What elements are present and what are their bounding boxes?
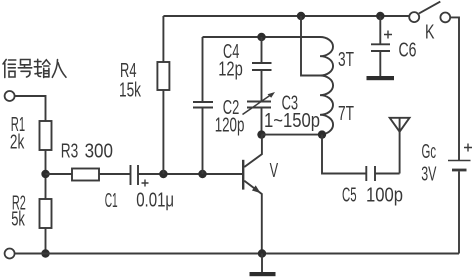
svg-text:Gc: Gc <box>422 140 437 163</box>
wire C1 to base node <box>138 173 242 175</box>
svg-text:12p: 12p <box>218 58 243 81</box>
C6 plus sign <box>384 31 392 39</box>
node C2 bottom <box>198 170 206 178</box>
wire battery to ground rail <box>458 171 460 253</box>
wire collector node to coil bottom <box>262 134 323 136</box>
wire C4 top <box>261 37 263 63</box>
switch K pole <box>409 12 419 22</box>
svg-text:C6: C6 <box>399 39 417 62</box>
node collector <box>257 130 265 138</box>
inductor L1 7T section <box>320 76 333 135</box>
wire C4 to C3 <box>261 70 263 102</box>
wire R4 bottom <box>162 90 164 174</box>
svg-text:R3: R3 <box>61 140 79 163</box>
battery plus sign <box>464 144 472 152</box>
svg-text:0.01μ: 0.01μ <box>136 189 174 212</box>
switch K lever <box>419 2 440 14</box>
svg-text:V: V <box>270 159 279 182</box>
svg-text:3V: 3V <box>421 162 436 185</box>
svg-text:300: 300 <box>85 140 113 163</box>
resistor R2 <box>40 199 52 228</box>
wire node A to R3 <box>46 173 73 175</box>
svg-text:120p: 120p <box>215 113 245 136</box>
capacitor C5 <box>366 166 375 181</box>
node C4 top <box>257 33 265 41</box>
node supply tap <box>297 12 305 20</box>
capacitor C4 <box>252 63 272 70</box>
capacitor C3 variable <box>247 102 271 108</box>
wire coil bottom to C5 <box>322 135 366 174</box>
switch K throw <box>440 13 450 23</box>
C1 plus sign <box>142 180 149 187</box>
svg-text:C1: C1 <box>105 189 118 212</box>
capacitor C6 <box>371 44 390 51</box>
wire switch to battery <box>450 17 459 160</box>
C3 arrow <box>243 94 273 115</box>
wire C3 bottom <box>261 108 263 135</box>
svg-text:C5: C5 <box>342 183 357 206</box>
wire R4 top <box>162 16 164 62</box>
node R4 bottom <box>159 170 167 178</box>
node coil bottom <box>318 130 326 138</box>
input terminal J1 <box>5 91 15 101</box>
ground symbol at C6 <box>367 76 395 80</box>
node C6 top <box>376 12 384 20</box>
transistor V base bar <box>242 160 244 190</box>
svg-text:K: K <box>425 21 435 44</box>
wire tank top <box>203 36 321 38</box>
battery Gc negative plate <box>452 169 467 172</box>
wire C6 bottom <box>379 51 381 76</box>
svg-text:2k: 2k <box>10 130 25 153</box>
label 信号输入 <box>3 59 66 77</box>
battery Gc positive plate <box>448 160 471 162</box>
resistor R4 <box>157 62 169 90</box>
resistor R1 <box>40 121 52 150</box>
resistor R3 <box>72 169 99 181</box>
ground symbol main <box>261 254 263 273</box>
top supply rail <box>163 15 409 17</box>
antenna <box>390 118 410 132</box>
input terminal J2 <box>5 249 15 259</box>
svg-text:3T: 3T <box>338 48 354 71</box>
node divider junction A <box>41 170 49 178</box>
node ground rail left <box>41 249 49 257</box>
wire tap to coil <box>301 16 320 76</box>
wire C2 bottom <box>202 108 204 175</box>
node emitter ground <box>258 249 266 257</box>
wire C6 top <box>379 16 381 44</box>
inductor L1 3T section <box>320 37 333 76</box>
transistor V emitter lead <box>244 181 261 254</box>
ground rail wire <box>15 253 459 255</box>
svg-text:1~150p: 1~150p <box>264 109 320 132</box>
wire C2 top <box>202 37 204 102</box>
svg-text:15k: 15k <box>119 78 141 101</box>
svg-text:100p: 100p <box>366 183 403 206</box>
wire R1 bottom to R2 top <box>45 150 47 199</box>
wire C5 to antenna <box>375 118 400 174</box>
svg-text:5k: 5k <box>11 208 25 231</box>
capacitor C2 <box>193 102 213 108</box>
svg-text:7T: 7T <box>338 102 354 125</box>
transistor V emitter arrow <box>252 185 261 193</box>
wire R2 bottom to ground rail <box>45 228 47 254</box>
transistor V collector lead <box>244 135 262 167</box>
capacitor C1 <box>131 165 139 185</box>
wire R3 to C1 <box>99 173 131 175</box>
wire input to R1 top <box>15 96 46 121</box>
